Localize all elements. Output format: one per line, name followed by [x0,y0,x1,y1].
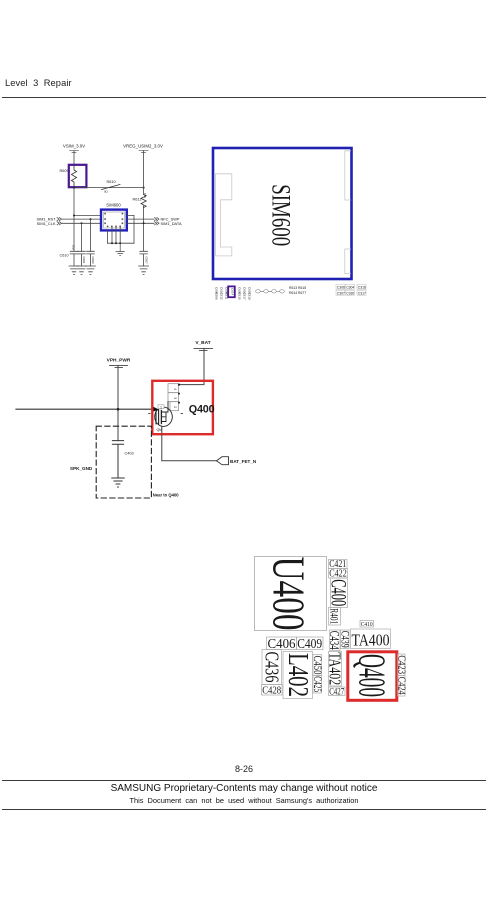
part TA400 [351,629,391,650]
svg-text:2: 2 [173,406,177,408]
capacitor C602 [87,251,95,266]
wire SIM1_DATA [127,222,154,224]
svg-text:1: 1 [160,405,162,409]
header rule [2,97,486,98]
wire SIM1_RST [62,218,101,220]
svg-text:U400: U400 [264,557,314,631]
junctions on bottom bus [111,242,121,244]
part U400 [255,557,327,631]
part TA402 [326,652,345,687]
part Q400 highlight box (red) [348,652,397,701]
svg-text:C428: C428 [262,686,281,697]
svg-text:SPK_GND: SPK_GND [70,466,93,471]
svg-text:C610: C610 [60,254,69,258]
junction pinbox top [178,384,180,386]
svg-text:C400: C400 [327,579,352,606]
part L402 [282,652,313,699]
svg-text:C615: C615 [238,293,242,301]
svg-text:C307: C307 [337,291,345,295]
resistor R610 (diagonal jumper) [102,185,121,190]
page number [0,764,488,774]
capacitor C610 [70,251,78,266]
junction gate/VPH [117,408,120,411]
wire R609 bottom down to SIM bus [73,186,75,251]
wire gate bus [16,408,156,410]
part C439 [339,630,351,649]
strip label C316 [357,284,366,289]
MOSFET gate arrow [153,406,159,412]
svg-text:C612: C612 [220,293,224,301]
wire VPH_PWR down to C403 [117,365,119,440]
module SIM600 big blue box [213,148,352,279]
strip pads row [256,290,285,293]
svg-text:C427: C427 [329,688,344,698]
svg-text:C602: C602 [91,257,95,265]
footer notice line 1 [0,783,488,794]
svg-text:C617: C617 [243,293,247,301]
svg-text:C403: C403 [125,452,134,456]
strip label C304 [345,284,354,289]
svg-text:C330: C330 [346,291,354,295]
svg-text:C607: C607 [144,257,148,265]
part C409 [297,637,324,652]
svg-text:R610: R610 [107,180,116,184]
part C406 [267,637,297,652]
svg-text:C316: C316 [358,285,366,289]
svg-text:VSIM_3.0V: VSIM_3.0V [63,144,85,149]
wire C602 stub [90,219,92,251]
part C436 [261,650,283,685]
ground C601 [77,266,87,274]
svg-text:QM: QM [157,428,163,432]
svg-text:C436: C436 [261,652,283,683]
highlight box (purple) on strip [228,286,235,297]
BOTTOM PCB CLUSTER [240,545,488,710]
resistor R612 zigzag [141,195,146,208]
part C422 [329,569,348,580]
svg-text:Q400: Q400 [189,404,215,416]
strip label C330 [345,290,354,295]
svg-text:SIM600: SIM600 [106,202,121,207]
footer rule 1 [2,780,486,781]
ground C610 [69,266,79,274]
svg-text:10K: 10K [143,193,147,198]
highlight box (red) Q400 [152,381,213,434]
svg-text:Near to Q400: Near to Q400 [153,493,180,498]
strip label C306 [336,284,345,289]
svg-text:C606: C606 [215,293,219,301]
ground C607 [139,266,149,274]
svg-text:0Ω: 0Ω [104,190,108,194]
wire source down to BAT_FET_N [162,435,217,461]
ground C403 [112,478,124,487]
header title [5,78,72,88]
transistor Q400 pin box 4 [168,384,179,393]
transistor Q400 pin box 3 [168,393,179,402]
wire VREG down [143,151,145,195]
svg-text:TA400: TA400 [352,631,390,650]
junction at R609 bottom [73,187,75,189]
svg-text:R401: R401 [328,608,342,624]
highlight box (purple) around R609 [69,165,87,187]
svg-text:SIM600: SIM600 [267,184,296,246]
connector SIM1_RST [36,217,61,222]
wire VSIM node to pin1 [74,215,100,217]
svg-text:C614: C614 [231,288,235,296]
svg-text:C409: C409 [297,637,322,652]
right edge inner line top [345,151,351,200]
svg-text:R613 R615: R613 R615 [289,286,306,290]
junction C602 on RST [90,218,92,220]
part C427 [329,687,346,698]
svg-text:SIM1_DATA: SIM1_DATA [161,221,182,226]
power flag VPH_PWR [107,358,131,368]
svg-text:C423: C423 [396,655,407,674]
wire NFC_SWP [127,218,154,220]
wire SIM1_CLK [62,222,101,224]
capacitor C403 [112,441,123,478]
svg-text:C317: C317 [358,291,366,295]
TOP SCHEMATIC [0,0,488,330]
ground IC [116,243,124,255]
footer notice line 2 [0,796,488,805]
svg-text:SIM1_CLK: SIM1_CLK [37,221,56,226]
svg-text:VREG_USIM2_3.0V: VREG_USIM2_3.0V [123,144,163,149]
svg-text:Q400: Q400 [350,654,392,697]
dashed region SPK_GND [96,426,151,498]
MOSFET pin1 tick [158,405,164,410]
MOSFET source mark [149,413,183,415]
connector BAT_FET_N [217,457,257,465]
MIDDLE SCHEMATIC [0,330,290,510]
part R401 [328,608,342,626]
junction C601 on CLK [81,222,83,224]
part C434 [327,630,342,651]
svg-text:C425: C425 [311,676,323,692]
strip label C317 [357,290,366,295]
part C410 [360,621,374,629]
wire C601 stub [81,223,83,251]
wire R612 to data bus and cap C607 [143,206,145,251]
footer rule 2 [2,809,486,810]
power flag VSIM_3.0V [63,144,85,153]
junction VSIM/pin1 [73,215,75,217]
transistor Q400 pin box 2 [170,402,179,411]
power flag V_BAT [194,340,213,351]
svg-text:C424: C424 [396,677,407,696]
ground C602 [86,266,96,274]
part C400 [327,578,352,608]
svg-text:C434: C434 [327,631,342,650]
bottom bus wire [108,242,134,244]
resistor R609 zigzag [71,166,76,186]
part C428 [262,685,283,697]
wire horizontal node to R610 [74,187,144,189]
svg-text:C450: C450 [311,656,323,675]
part C421 [329,559,348,570]
IC SIM600 (ESD filter) blue highlighted box [101,210,127,231]
junction pins mid [178,393,180,404]
part C423 [396,654,407,676]
svg-text:C410: C410 [361,621,373,628]
svg-text:R612: R612 [133,198,142,202]
svg-text:TA402: TA402 [326,652,345,685]
part C424 [396,676,407,697]
svg-text:V_BAT: V_BAT [195,340,210,346]
wires IC bottom pins down [108,227,121,243]
svg-text:VPH_PWR: VPH_PWR [107,358,131,364]
svg-text:L402: L402 [282,653,313,697]
wire IC right top to wrap [127,215,134,243]
junction at VREG column [143,187,145,189]
connector NFC_SWP [155,217,180,222]
svg-text:4: 4 [173,388,177,390]
svg-text:C304: C304 [346,285,354,289]
wire VSIM down to resistor [73,151,75,166]
IC bottom pins [107,226,121,228]
svg-text:C601: C601 [82,257,86,265]
transistor Q400 MOSFET symbol [155,402,173,435]
connector SIM1_CLK [37,221,62,226]
connector SIM1_DATA [155,221,182,226]
capacitor C607 [140,251,148,266]
right edge inner line bottom [345,249,351,274]
junction DATA pullup [143,222,145,224]
wire V_BAT down [179,348,204,384]
svg-text:BAT_FET_N: BAT_FET_N [230,459,257,464]
svg-text:C619: C619 [248,293,252,301]
power flag VREG_USIM2_3.0V [123,144,163,153]
strip label C307 [336,290,345,295]
svg-text:10p: 10p [72,245,76,250]
IC right pins [122,213,124,224]
part C450 [311,655,323,676]
svg-text:3: 3 [173,397,177,399]
SIM socket outline inside module [216,174,232,256]
svg-text:R609: R609 [60,169,69,173]
svg-text:C306: C306 [337,285,345,289]
part C425 [311,676,323,694]
IC left pins 1,2,3 [104,213,106,224]
capacitor C601 [78,251,86,266]
svg-text:R614 R677: R614 R677 [289,291,306,295]
